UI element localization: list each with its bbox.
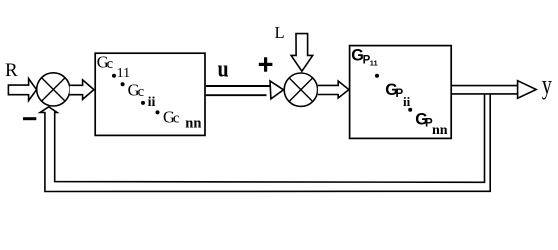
svg-text:R: R bbox=[5, 60, 18, 81]
svg-text:11: 11 bbox=[117, 66, 130, 81]
wire u vector double line bbox=[206, 81, 284, 99]
wire R input hollow arrow bbox=[8, 79, 36, 101]
diagonal dots Gc bbox=[112, 74, 116, 78]
wire S1 to Gc block hollow arrow bbox=[70, 80, 94, 100]
summing junction S1 bbox=[37, 73, 70, 106]
svg-text:ii: ii bbox=[403, 94, 411, 109]
svg-text:ii: ii bbox=[148, 95, 156, 110]
diagonal dot Gp bbox=[375, 74, 379, 78]
label Gpnn bbox=[415, 110, 448, 138]
svg-text:c: c bbox=[107, 56, 113, 72]
minus sign at S1 bbox=[23, 117, 36, 120]
plant block Gp bbox=[350, 46, 452, 139]
diagonal dots Gc bbox=[141, 101, 145, 105]
svg-text:nn: nn bbox=[185, 116, 201, 132]
wire y output vector double line bbox=[451, 81, 536, 99]
svg-text:11: 11 bbox=[370, 59, 378, 68]
wire S2 to Gp block hollow arrow bbox=[318, 81, 349, 98]
plus sign at S2 bbox=[259, 57, 273, 71]
svg-text:nn: nn bbox=[432, 123, 448, 138]
controller block Gc bbox=[95, 53, 205, 135]
wire L input hollow arrow down bbox=[291, 34, 313, 72]
label Gpii bbox=[385, 81, 410, 109]
svg-text:y: y bbox=[542, 70, 552, 100]
diagonal dot Gp bbox=[408, 108, 412, 112]
svg-text:c: c bbox=[138, 84, 144, 100]
feedback wire with hollow up arrow into S1 bbox=[40, 95, 490, 192]
label Gcnn bbox=[163, 107, 201, 131]
svg-text:L: L bbox=[275, 23, 285, 42]
svg-text:c: c bbox=[173, 111, 179, 127]
label Gcii bbox=[128, 81, 156, 110]
label Gc11 bbox=[97, 53, 130, 82]
summing junction S2 bbox=[284, 73, 317, 106]
label Gp11 bbox=[351, 47, 377, 68]
svg-text:u: u bbox=[218, 55, 229, 82]
